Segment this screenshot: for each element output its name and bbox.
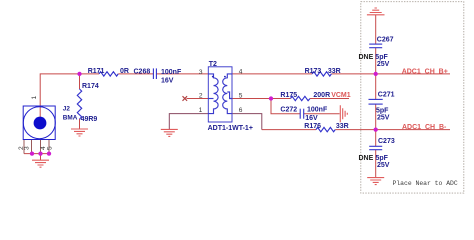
svg-text:R171: R171 — [88, 68, 105, 75]
svg-text:5: 5 — [47, 146, 54, 150]
svg-text:33R: 33R — [328, 68, 341, 75]
svg-text:2: 2 — [199, 92, 203, 99]
svg-text:33R: 33R — [336, 123, 349, 130]
svg-text:VCM1: VCM1 — [331, 92, 351, 99]
svg-text:R176: R176 — [304, 123, 321, 130]
svg-text:100nF: 100nF — [161, 69, 182, 76]
svg-text:C271: C271 — [378, 92, 395, 99]
svg-text:C273: C273 — [378, 138, 395, 145]
svg-text:25V: 25V — [377, 115, 390, 122]
svg-text:1: 1 — [31, 96, 38, 100]
svg-text:5: 5 — [239, 93, 243, 100]
svg-text:R175: R175 — [280, 92, 297, 99]
svg-text:3: 3 — [199, 69, 203, 76]
svg-text:ADC1_CH_B+: ADC1_CH_B+ — [402, 69, 448, 76]
svg-text:BMA: BMA — [63, 115, 78, 122]
svg-text:16V: 16V — [161, 77, 174, 84]
svg-text:25V: 25V — [377, 162, 390, 169]
svg-text:DNE: DNE — [359, 155, 374, 162]
svg-text:4: 4 — [239, 68, 243, 75]
svg-text:5pF: 5pF — [375, 54, 388, 61]
svg-text:16V: 16V — [305, 115, 318, 122]
svg-text:C267: C267 — [377, 37, 394, 44]
svg-text:R173: R173 — [305, 68, 322, 75]
svg-text:ADT1-1WT-1+: ADT1-1WT-1+ — [208, 125, 253, 132]
svg-text:49R9: 49R9 — [81, 116, 98, 123]
svg-text:6: 6 — [239, 107, 243, 114]
svg-text:3: 3 — [24, 146, 31, 150]
svg-text:5pF: 5pF — [376, 155, 389, 162]
svg-text:200R: 200R — [313, 92, 330, 99]
svg-text:R174: R174 — [82, 83, 99, 90]
svg-text:ADC1_CH_B-: ADC1_CH_B- — [402, 124, 447, 131]
svg-text:1: 1 — [199, 107, 203, 114]
svg-text:5pF: 5pF — [376, 108, 389, 115]
svg-text:T2: T2 — [209, 61, 217, 68]
svg-text:Place Near to ADC: Place Near to ADC — [393, 180, 458, 187]
svg-text:C268: C268 — [134, 68, 151, 75]
svg-text:J2: J2 — [63, 106, 71, 113]
svg-text:0R: 0R — [120, 68, 129, 75]
svg-text:DNE: DNE — [359, 54, 374, 61]
svg-text:25V: 25V — [377, 61, 390, 68]
svg-text:C272: C272 — [280, 107, 297, 114]
svg-text:100nF: 100nF — [307, 107, 328, 114]
